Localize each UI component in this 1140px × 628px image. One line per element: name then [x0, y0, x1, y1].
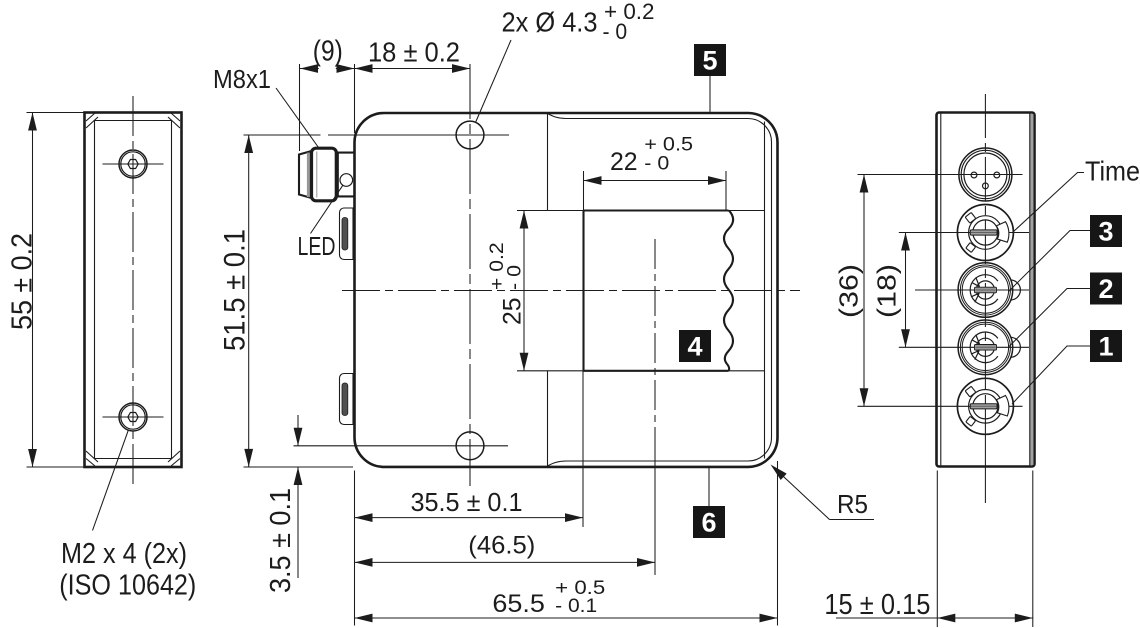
LED dome on connector flange — [340, 174, 353, 187]
step vertical edge x=548 — [547, 114, 549, 211]
M8 connector thread part — [299, 151, 310, 197]
right view chamfer line left — [940, 114, 942, 467]
vertical hole centerline — [469, 64, 471, 486]
dimension 55 +/- 0.2 — [7, 113, 85, 468]
svg-text:65.5: 65.5 — [492, 590, 545, 618]
svg-text:25: 25 — [499, 298, 527, 326]
callout box 6 — [693, 468, 725, 539]
svg-text:- 0: - 0 — [644, 154, 669, 175]
svg-text:(36): (36) — [834, 264, 864, 318]
callout box 2 with leader — [1009, 273, 1122, 347]
svg-text:LED: LED — [298, 231, 336, 261]
potentiometer circle 5 — [858, 378, 1023, 434]
callout box 4 — [679, 330, 711, 362]
teach button lower on left edge — [340, 374, 354, 425]
hole axis horizontal line / 51.5 extension — [244, 134, 321, 136]
svg-text:(9): (9) — [313, 36, 343, 68]
label Time with leader — [1013, 156, 1140, 233]
screw hole top (M2 countersunk) — [103, 150, 164, 178]
left view vertical centerline — [132, 96, 134, 487]
hole axis bottom / 3.5 extension — [294, 445, 509, 447]
dimension 15 +/- 0.15 — [824, 471, 1032, 628]
label M8x1 with leader — [213, 64, 319, 148]
teach button upper on left edge — [340, 208, 354, 260]
svg-text:Time: Time — [1085, 156, 1140, 187]
measuring slot (window) thick edges — [584, 211, 729, 371]
svg-text:- 0.1: - 0.1 — [555, 596, 597, 617]
label 2x D4.3 with leader — [476, 0, 655, 123]
dimension 22 +0.5/-0 — [584, 135, 727, 211]
label LED with leader — [298, 185, 343, 261]
connector flange to housing — [338, 152, 355, 198]
svg-text:2x Ø 4.3: 2x Ø 4.3 — [502, 7, 598, 38]
svg-text:15 ± 0.15: 15 ± 0.15 — [824, 589, 930, 621]
svg-text:M2 x 4 (2x): M2 x 4 (2x) — [61, 538, 187, 570]
break wave line — [724, 211, 733, 371]
pushbutton circle 4 — [899, 320, 1029, 375]
right view body outline — [937, 113, 1035, 467]
svg-text:- 0: - 0 — [505, 265, 526, 290]
screw hole bottom (M2 countersunk) — [103, 403, 164, 431]
dimension 3.5 +/- 0.1 (rotated) — [244, 415, 354, 593]
step face vertical edge right — [764, 122, 766, 459]
svg-text:3: 3 — [1098, 216, 1113, 246]
svg-text:(46.5): (46.5) — [468, 532, 535, 560]
dimension (36) rotated — [834, 175, 869, 407]
svg-text:2: 2 — [1098, 274, 1113, 304]
svg-text:35.5 ± 0.1: 35.5 ± 0.1 — [411, 487, 523, 517]
M8 connector face circles — [858, 148, 1023, 201]
slot thin edge continuations — [517, 211, 765, 371]
dimension 51.5 +/- 0.1 (rotated) — [219, 135, 254, 467]
dimension (46.5) — [355, 532, 656, 567]
svg-text:+ 0.5: + 0.5 — [644, 135, 693, 156]
left view inner face lines — [95, 121, 172, 459]
callout box 5 — [694, 44, 726, 112]
svg-text:1: 1 — [1098, 331, 1113, 361]
callout box 3 with leader — [1009, 215, 1123, 292]
svg-text:3.5 ± 0.1: 3.5 ± 0.1 — [265, 488, 297, 593]
svg-text:(18): (18) — [872, 264, 902, 318]
label R5 with leader arrow — [771, 465, 875, 520]
left view body outline — [85, 113, 182, 468]
main body outline R5 — [355, 113, 778, 467]
svg-text:51.5 ± 0.1: 51.5 ± 0.1 — [219, 229, 252, 351]
svg-text:6: 6 — [701, 507, 716, 537]
right view vertical centerline — [984, 94, 986, 430]
dimension (18) rotated — [872, 233, 910, 348]
callout box 1 with leader — [1012, 330, 1122, 404]
svg-text:18 ± 0.2: 18 ± 0.2 — [368, 37, 460, 68]
M8 connector barrel — [312, 148, 337, 201]
svg-text:R5: R5 — [837, 489, 868, 519]
svg-text:- 0: - 0 — [603, 19, 628, 44]
dimension 35.5 +/- 0.1 — [355, 371, 584, 626]
svg-text:5: 5 — [702, 45, 717, 75]
dimension 25 +0.2/-0 (rotated) — [487, 211, 528, 371]
dimension (9) — [300, 36, 471, 151]
svg-text:4: 4 — [687, 331, 702, 361]
right view chamfer strip right (shaded) — [1030, 114, 1034, 465]
svg-text:22: 22 — [610, 148, 638, 176]
svg-text:55 ± 0.2: 55 ± 0.2 — [7, 233, 39, 330]
Time potentiometer (circle 2) — [899, 205, 1029, 261]
svg-text:M8x1: M8x1 — [213, 64, 271, 94]
label M2 x 4 (2x) (ISO 10642) with leader — [59, 430, 196, 601]
pushbutton circle 3 — [915, 263, 1029, 318]
left view corner chamfers — [86, 113, 180, 466]
mounting hole bottom 4.3 — [456, 432, 484, 460]
dimension 65.5 +0.5/-0.1 — [355, 461, 778, 626]
dimension 18 +/- 0.2 — [355, 37, 471, 73]
mounting hole top 4.3 — [456, 121, 484, 149]
inner step contour right part — [548, 114, 772, 467]
slot vertical centerline — [654, 239, 656, 455]
main horizontal centerline — [342, 290, 800, 292]
svg-text:(ISO 10642): (ISO 10642) — [59, 570, 196, 602]
